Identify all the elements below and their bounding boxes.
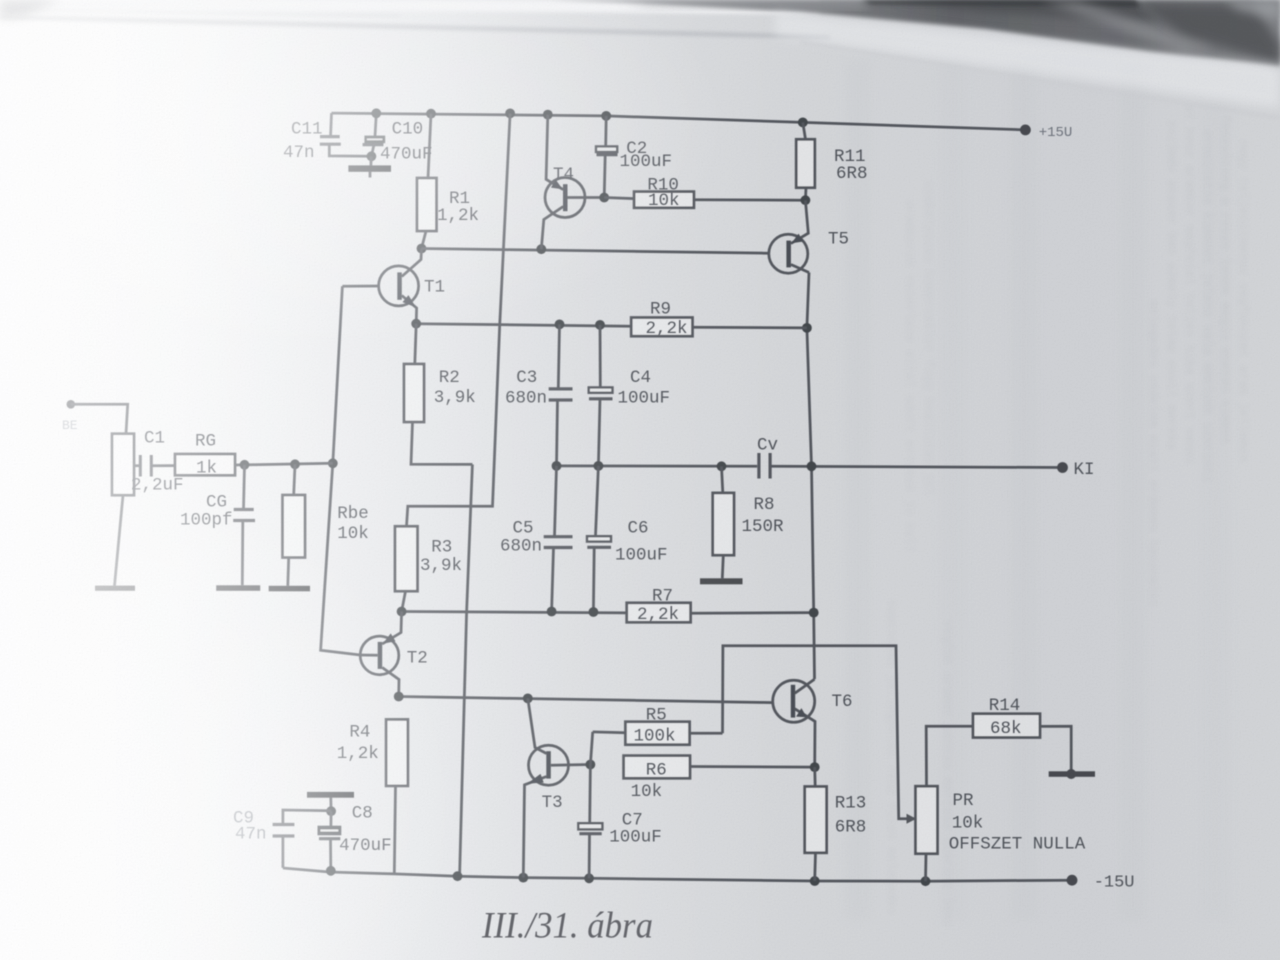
wire T2 emitter to T6 base y697	[399, 697, 773, 703]
transistor T4	[541, 115, 604, 250]
ground above C8	[307, 792, 354, 811]
junction C8/C9 top	[326, 806, 336, 816]
wire R7 line y612	[402, 612, 627, 613]
ground below Rbe	[269, 586, 310, 592]
bleed-through text from reverse page, right margin	[1146, 105, 1250, 608]
junction T6 emitter / R6 / R13	[810, 762, 820, 772]
ground below input shunt	[95, 586, 135, 591]
junction T4 collector on y248 line	[536, 244, 546, 254]
transistor T1	[342, 249, 421, 324]
junction rail/C7	[584, 873, 594, 883]
capacitor C7 (electrolytic)	[578, 823, 602, 878]
capacitor C6 (electrolytic)	[587, 466, 611, 612]
node +15V terminal	[1020, 124, 1031, 135]
resistor R7	[627, 603, 814, 623]
junction rail/T3 emitter	[518, 873, 528, 883]
junction R7 line / C6	[589, 607, 599, 617]
background page texture streaks right side	[845, 60, 1230, 920]
wire KI output line	[557, 465, 758, 468]
junction rail/T4 emitter	[543, 110, 553, 120]
resistor Rbe	[283, 464, 306, 586]
resistor R3	[395, 526, 418, 611]
resistor R10	[604, 192, 805, 208]
resistor R9	[631, 318, 807, 337]
resistor R14	[973, 714, 1071, 772]
page edge diagonal line top-left	[0, 17, 830, 37]
ground below R8	[700, 578, 743, 584]
junction rail/x510 vertical	[505, 109, 515, 119]
capacitor CG	[233, 465, 255, 586]
transistor T6	[773, 679, 815, 767]
junction rail/PR	[921, 876, 931, 886]
junction R7 line / C5	[547, 607, 557, 617]
junction RG / Rbe	[290, 459, 300, 469]
wire R5 right to PR wiper	[723, 646, 917, 819]
node -15V terminal	[1067, 875, 1078, 886]
junction R7 line / R3 bottom / T2 collector	[397, 607, 407, 617]
junction KI line / T5 collector	[807, 461, 817, 471]
transistor T2	[360, 612, 401, 697]
resistor R6	[624, 756, 815, 779]
wire T3 base node vertical	[590, 732, 593, 823]
top sheet edge: white band above fold	[0, 0, 820, 14]
vertical wire from rail x510 down to R3 top	[407, 113, 511, 526]
PR wiper arrow	[907, 814, 917, 824]
node KI terminal	[1057, 462, 1068, 473]
wire R2 bottom long vertical to bottom rail	[460, 464, 473, 875]
node BE input terminal	[67, 400, 76, 409]
capacitor C4 (electrolytic)	[589, 325, 613, 466]
ground below R14	[1049, 769, 1095, 779]
junction T1 emitter / R2 top	[411, 319, 421, 329]
junction y697 / T3 collector	[523, 694, 533, 704]
transistor T3	[523, 698, 590, 877]
junction rail/R11	[798, 118, 808, 128]
junction T3 base / R5 / R6 / C7	[586, 760, 596, 770]
wire BE input	[71, 404, 128, 433]
small dark sliver top-left corner	[0, 0, 60, 19]
resistor R13	[805, 767, 827, 881]
white page edge wedge below dark region	[775, 12, 1280, 108]
capacitor C3	[549, 324, 573, 466]
junction y324 line / T5 collector	[802, 323, 812, 333]
junction T4 base / C2 / R10	[599, 193, 609, 203]
junction R1 bottom / T1 collector	[417, 244, 427, 254]
junction KI line / C4 col	[594, 461, 604, 471]
resistor R2	[404, 324, 472, 465]
junction rail/R13	[810, 876, 820, 886]
transistor T5	[769, 200, 809, 273]
wire +15V top rail	[332, 113, 1026, 130]
capacitor C11	[320, 113, 372, 156]
ground below C10	[348, 156, 391, 177]
junction C10/C11/ground	[367, 151, 377, 161]
junction rail/C8	[326, 866, 336, 876]
svg-text:III./31. ábra: III./31. ábra	[481, 906, 653, 947]
capacitor C5	[544, 466, 573, 612]
junction rail/R1	[426, 109, 436, 119]
resistor R4	[386, 719, 408, 874]
wire T1 base / T2 base long vertical	[321, 286, 361, 655]
resistor R5	[593, 722, 723, 745]
junction y324/C4	[595, 320, 605, 330]
junction R7 / T6 collector vertical	[809, 608, 819, 618]
junction R11/R10/T5 emitter	[801, 195, 811, 205]
junction KI line / R8	[717, 461, 727, 471]
junction rail/R2 vertical	[453, 871, 463, 881]
dark background region top-right corner	[548, 0, 1280, 66]
capacitor C1	[134, 455, 175, 477]
junction T2 emitter / R4	[394, 692, 404, 702]
wire R1-bottom node to T5 base	[422, 249, 769, 254]
resistor input shunt (unlabeled)	[112, 434, 134, 586]
capacitor C10 (electrolytic)	[363, 113, 385, 156]
capacitor C8 (electrolytic)	[319, 811, 341, 870]
capacitor C2 (electrolytic)	[596, 116, 618, 198]
junction KI line / C3 col	[552, 461, 562, 471]
junction rail/C10	[371, 108, 381, 118]
potentiometer PR	[916, 726, 974, 881]
junction RG / CG	[240, 460, 250, 470]
wire -15V bottom rail	[283, 868, 1072, 881]
resistor RG	[175, 454, 333, 475]
junction input node on base vertical	[328, 458, 338, 468]
junction rail/C2	[601, 111, 611, 121]
ground below CG	[216, 585, 260, 591]
junction y324/C3	[555, 320, 565, 330]
capacitor Cv	[759, 453, 1063, 479]
resistor R8	[713, 466, 734, 578]
wire T1 emitter line y324	[416, 324, 631, 327]
wire T5 collector long vertical to T6	[807, 273, 815, 680]
resistor R1	[417, 114, 437, 249]
capacitor C9	[273, 810, 332, 868]
resistor R11	[796, 122, 815, 200]
